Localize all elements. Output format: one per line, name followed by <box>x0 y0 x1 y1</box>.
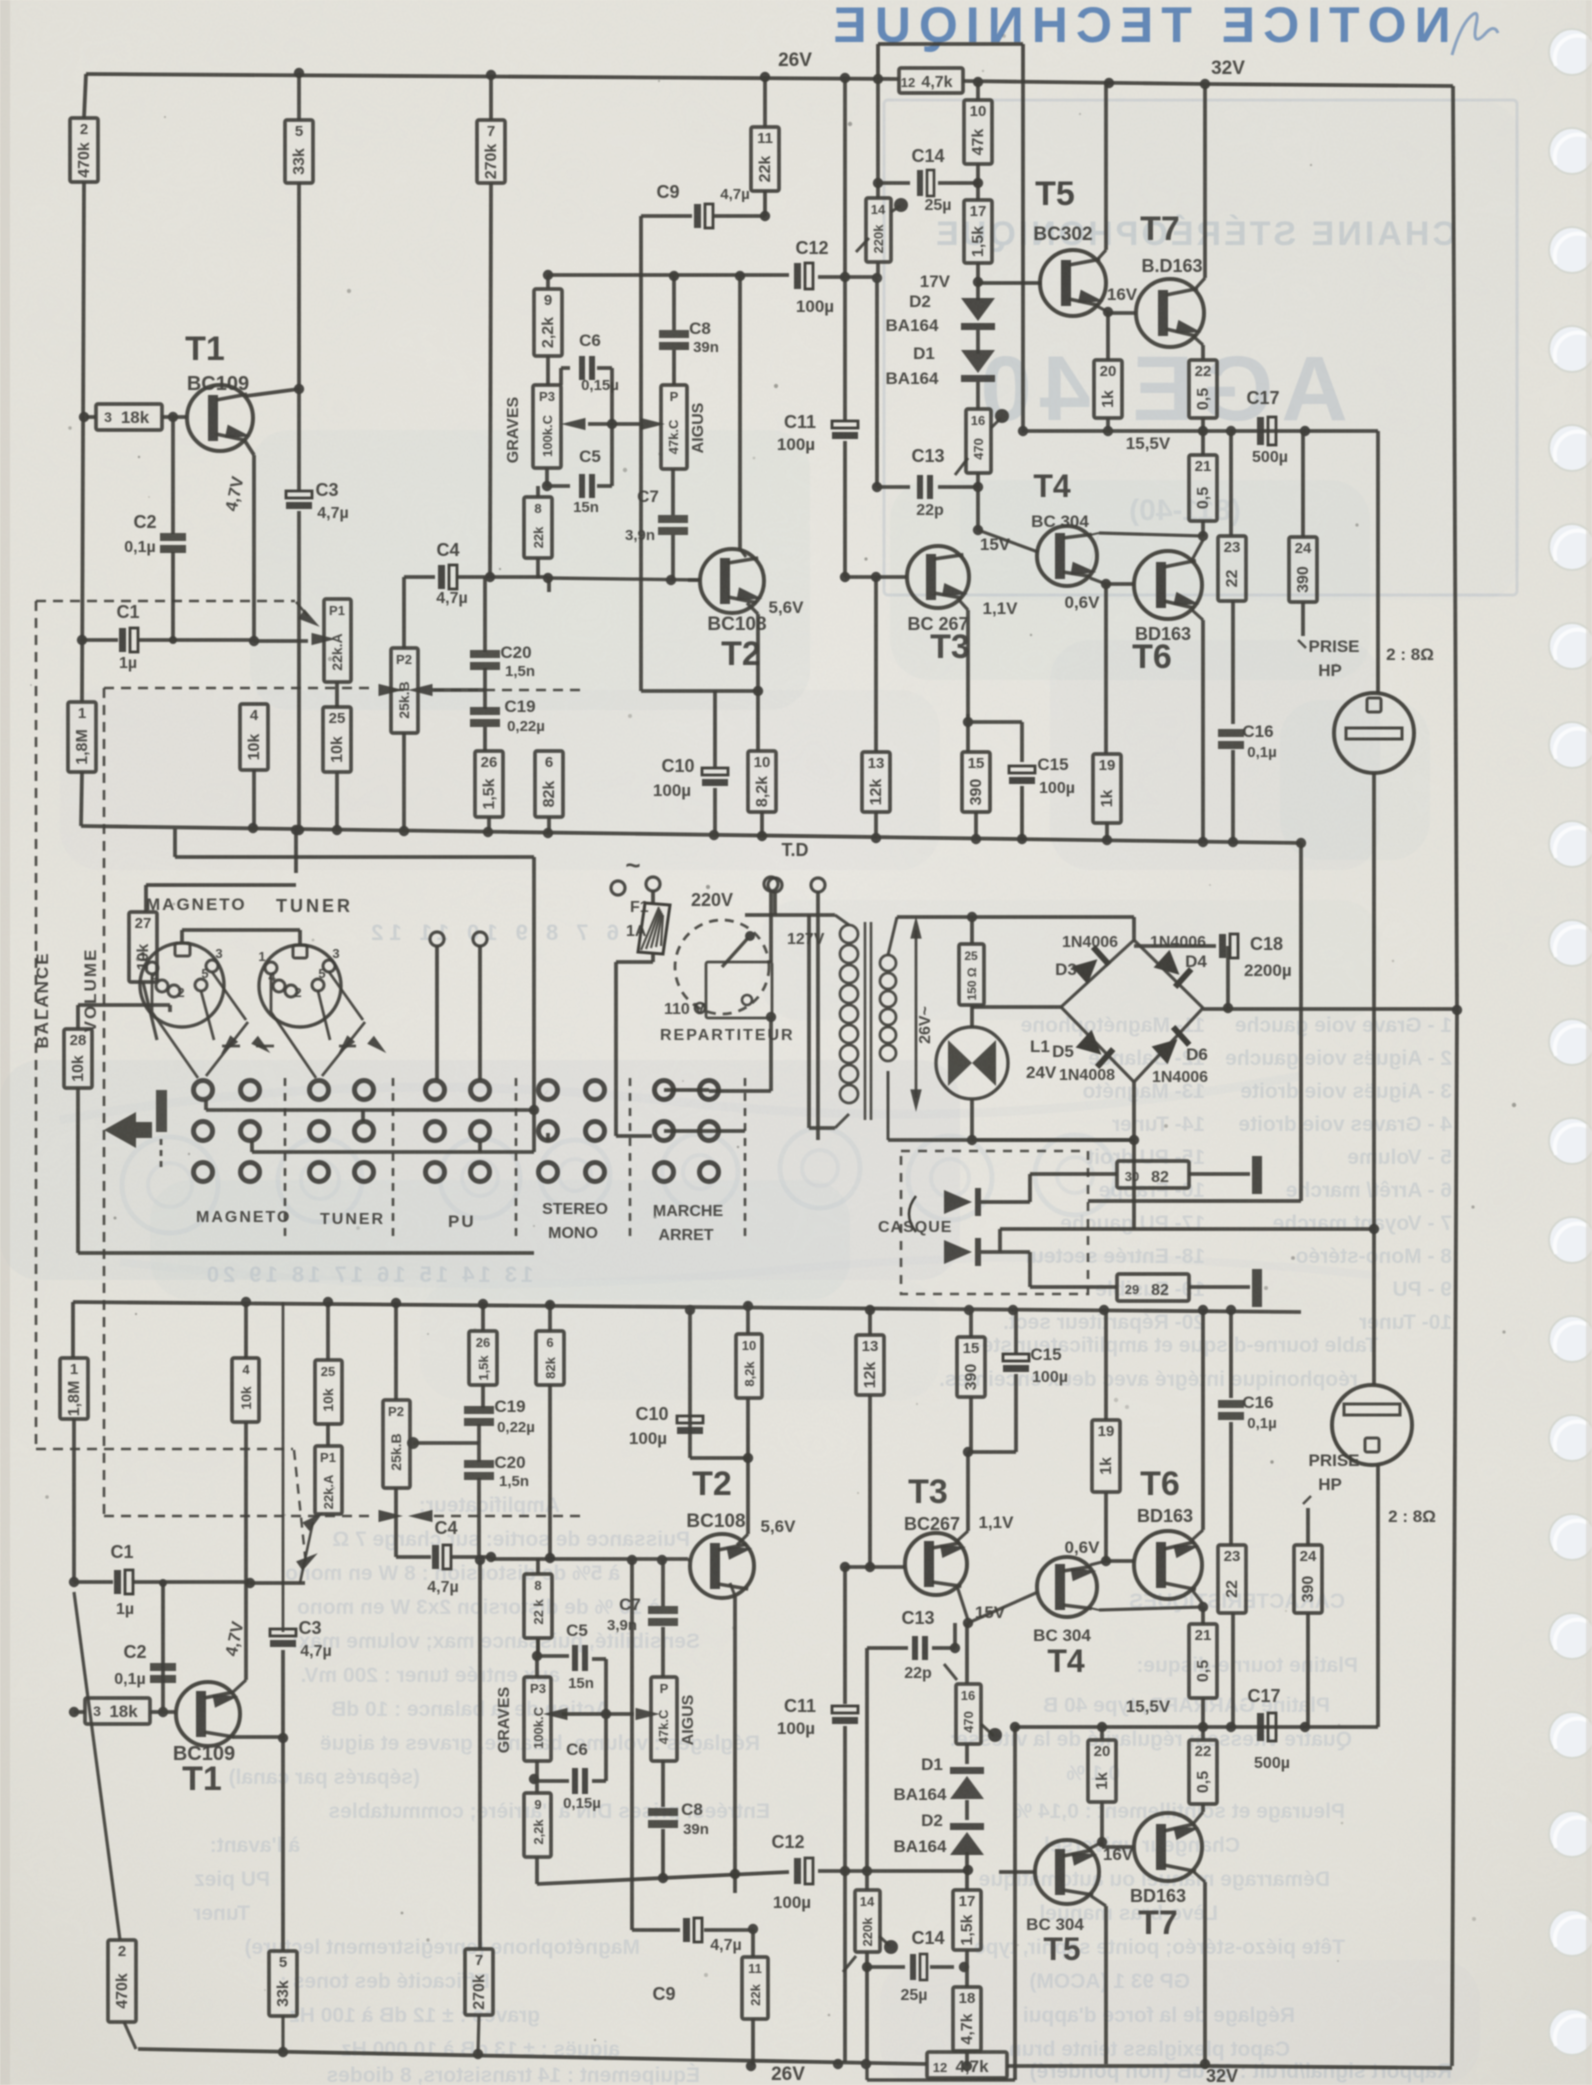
resistor R24 390 <box>1301 431 1305 537</box>
wire: T1 collector to R5 <box>246 389 299 396</box>
wire: T4b collector to T6b base node <box>1090 1561 1106 1565</box>
resistor R21b 0,5 <box>1201 1607 1205 1624</box>
wire: C13 node down to T3 collector/15V <box>976 487 980 530</box>
resistor R13b 12k <box>868 1310 872 1335</box>
wire: rail to C1b <box>72 1419 76 1582</box>
pot P3 100k.C GRAVES <box>533 385 561 468</box>
pot P2b 25k.B bottom <box>383 1400 410 1488</box>
transistor T1 BC109 <box>187 385 253 451</box>
wire: left rail down <box>84 74 86 118</box>
wire: P2b bottom to C4b <box>394 1488 398 1557</box>
wire: T7 emitter down to R22 <box>1193 336 1203 345</box>
wire: R29 to jack contact <box>1189 1285 1250 1289</box>
resistor R12 4.7k (series in rail) <box>899 68 963 93</box>
capacitor C8b 39n <box>661 1761 665 1807</box>
wire: secondary bottom line <box>888 1138 1134 1142</box>
wire: T2 emitter down <box>747 603 758 614</box>
casque dashed box <box>901 1151 1088 1294</box>
capacitor C6b 0,15u <box>535 1761 539 1779</box>
wire: D2b to 17V line <box>965 1852 969 1872</box>
wire: R11 down to C9 node <box>763 191 767 216</box>
wire: bottom C12 rail to 17V line <box>867 1869 968 1873</box>
wire: T6b base <box>1106 1559 1134 1563</box>
dashed volume line <box>104 687 374 690</box>
label 17V and node <box>976 263 980 282</box>
wire: bottom left rail <box>71 1302 75 1358</box>
lamp L1 24V <box>970 1005 974 1027</box>
resistor R7 270k <box>489 75 493 120</box>
wire: T3b base line <box>845 1565 905 1569</box>
pot R14 220k <box>876 183 880 198</box>
resistor R28 10k <box>64 1029 92 1088</box>
wire: T2b emitter up <box>737 1534 748 1545</box>
resistor R12b 4,7k (series bottom rail) <box>927 2052 1007 2078</box>
bleed: faint box CHAINE STEREOPHONIQUE AGE 40 <box>884 100 1517 595</box>
resistor R7b 270k <box>478 1560 482 1949</box>
diode D1 BA164 <box>976 330 980 354</box>
capacitor C10 100u <box>713 691 717 768</box>
capacitor C20b 1,5n chain <box>477 1478 481 1559</box>
wire: tone network top line <box>548 578 700 580</box>
resistor R5 33k <box>297 73 301 120</box>
wire: R24b top hook to HP <box>1306 1508 1310 1545</box>
wire: T7 collector up to rail <box>1196 278 1205 288</box>
wire: speaker bottom to 15,5V rail <box>1376 1465 1380 1727</box>
wire: C12 rail (26V decoupled) <box>548 273 789 277</box>
26V~ arrow <box>915 930 918 1098</box>
pot P3b GRAVES bottom <box>535 1656 539 1677</box>
transistor T2 BC108 <box>700 549 764 613</box>
pot AIGUS bottom <box>661 1627 665 1677</box>
bridge diode D4 1N4006 <box>1154 950 1194 989</box>
wire: R16 bottom to C13 node <box>976 473 980 487</box>
wire: T4 emitter <box>1087 533 1099 577</box>
resistor lamp series 150ohm <box>967 912 977 922</box>
wire: bottom channel ground bus <box>73 1302 1301 1312</box>
wire: 15,5V to speaker top <box>1376 431 1380 693</box>
wire: top ground rail <box>81 826 1301 843</box>
transistor T1b collector line <box>232 1735 283 1739</box>
wire: C5b/C6b right vertical <box>604 1659 608 1781</box>
resistor R23b 22 <box>1229 1310 1233 1398</box>
resistor R17 1,5k <box>976 183 980 200</box>
resistor R23 22 <box>1229 431 1233 536</box>
transistor T6 BD163 <box>1134 551 1202 619</box>
marche/arret wiring <box>664 1088 709 1092</box>
repartiteur <box>675 920 769 1014</box>
resistor R3b 18k <box>85 1698 150 1724</box>
capacitor C3 4,7u (T1 collector coupling) <box>297 389 301 490</box>
transformer primary coil <box>840 925 858 943</box>
wire: R7 down to C4 node <box>490 183 491 577</box>
wire: T5b base <box>999 1870 1035 1874</box>
wire: 17V to T5 base <box>978 281 1042 285</box>
DIN socket TUNER <box>259 945 341 1027</box>
transformer secondary coil <box>880 955 896 971</box>
resistor R1b 1,8M <box>60 1358 88 1419</box>
wire: bottom C12 rail <box>537 1872 789 1884</box>
wire: T7 base from 16V node <box>1108 311 1136 315</box>
wire: right border +32V down <box>1453 86 1457 1010</box>
diode D2 BA164 <box>976 282 980 300</box>
capacitor C8 39n <box>672 276 676 330</box>
wire: secondary top to bridge <box>1132 917 1136 940</box>
resistor R11 22k <box>763 77 767 127</box>
pot P2 25k.B (volume) <box>391 648 418 733</box>
wire: C19 bottom to R26 <box>483 727 487 751</box>
capacitor C19 0,22u <box>470 707 500 715</box>
wire: T6 collector to R21 node <box>1192 540 1203 560</box>
wire: T4b emitter line to R21b node <box>1099 1607 1203 1610</box>
wire: T7b base <box>1102 1845 1134 1849</box>
capacitor C13b 22p <box>865 1648 869 1872</box>
capacitor C12 100u <box>794 263 801 289</box>
speaker jack top <box>1334 693 1414 773</box>
wire: R5 down to T1 collector <box>297 183 301 389</box>
wires: tuner pins to contacts <box>329 972 363 1020</box>
wire: bootstrap loop over 4.7k <box>876 44 880 79</box>
transistor T4b BC304 <box>1037 1557 1097 1617</box>
wire: T1b emitter up <box>233 1680 246 1692</box>
DIN socket MAGNETO <box>140 943 224 1027</box>
transistor T5b BC304 <box>1035 1840 1099 1904</box>
bridge diode D3 1N4006 <box>1072 945 1112 984</box>
resistor R22b 0,5 <box>1189 1740 1217 1804</box>
resistor R9b 2,2k <box>535 1779 539 1793</box>
dashed volume line bottom <box>104 1515 374 1518</box>
capacitor C12b 100u <box>794 1858 801 1884</box>
capacitor C4 4,7u <box>404 575 435 579</box>
wire: R28 bottom to lower bus <box>76 1088 80 1253</box>
wire: right border down to bottom rail <box>1452 1010 1457 2066</box>
bridge diode D5 1N4008 <box>1076 1030 1116 1069</box>
resistor R25 10k <box>335 682 339 707</box>
wire: bottom channel collector drops R5b R7b <box>281 1738 285 1951</box>
pot R14b 220k <box>855 1890 880 1952</box>
hatched strip near volume arrow <box>156 1090 167 1132</box>
resistor R15b 390 <box>969 1310 973 1337</box>
wire: bus prolong to C9b column <box>631 1559 633 1561</box>
resistor R21 0,5 <box>1201 431 1205 455</box>
wire: T6 base <box>1106 582 1134 586</box>
node: rail junctions top <box>294 68 304 78</box>
wire: speaker column crossings <box>1133 1228 1135 1230</box>
capacitor C7b 3,9n <box>661 1560 665 1606</box>
resistor R24b 390 <box>1294 1545 1322 1613</box>
wire: T6 emitter down to ground <box>1192 610 1203 620</box>
dashed balance line <box>36 600 295 603</box>
resistor R1 1,8M <box>68 702 96 772</box>
wire: T3b emitter up to R15/C15 node <box>957 1531 968 1541</box>
pot R16b 470 <box>956 1684 981 1744</box>
input arrow <box>104 1112 152 1148</box>
wire: rail to C14 node <box>876 79 880 183</box>
resistor R20 1k <box>1106 312 1110 360</box>
capacitor C9b 4,7u <box>632 1928 680 1932</box>
resistor R2b 470k <box>74 1592 120 1940</box>
wire: socket top frames <box>180 930 184 943</box>
resistor R4b 10k <box>244 1302 248 1358</box>
wire: bridge bottom to casque area <box>1132 1082 1136 1140</box>
wire: bank to stereo contacts <box>534 1090 548 1110</box>
wire: R14b col down to bottom rail <box>865 1967 869 2062</box>
wire: C1 input line <box>77 635 87 645</box>
resistor R18b 4,7k <box>965 1967 969 1987</box>
capacitor C9 4,7u <box>641 214 692 218</box>
wire: T7b collector down to rail <box>1194 1872 1205 1882</box>
wire: speakers common line <box>1000 1227 1374 1231</box>
transistor T3b BC267 <box>905 1533 967 1595</box>
resistor R26b 1,5k <box>481 1385 485 1408</box>
wire: bridge plus output to border <box>1203 1007 1457 1011</box>
capacitor C5 15n <box>547 484 570 488</box>
wire: R30 to jack contact <box>1189 1172 1250 1176</box>
resistor R2 470k <box>70 118 98 182</box>
wire: T6b collector to R21b node <box>1192 1590 1203 1604</box>
capacitor C19b 0,22u <box>464 1406 494 1414</box>
wire: T5 emitter to 16V node <box>1095 305 1108 312</box>
resistor R8 22k <box>536 486 540 497</box>
transistor T3 BC267 <box>907 546 969 608</box>
capacitor C7 3,9n <box>671 469 675 515</box>
wire: P2b top to bus <box>394 1302 398 1400</box>
wire: T1 emitter down <box>245 441 254 455</box>
wire: T4 collector down to T6 base node <box>1090 578 1106 584</box>
resistor R19b 1k <box>1104 1492 1108 1561</box>
wires: magneto pins to contacts <box>212 972 246 1020</box>
casque diode pair upper <box>944 1190 972 1214</box>
wire: 0V line to right <box>1132 1140 1136 1229</box>
wire: R24 down to HP contact <box>1301 602 1305 636</box>
wire: T6b emitter up to bus <box>1192 1530 1203 1540</box>
wire: bootstrap loop bottom <box>1013 1727 1017 2080</box>
wire: +26V top rail <box>86 74 899 79</box>
diode D2b BA164 <box>965 1800 969 1820</box>
wire: C5/C6 right junction to wiper arrows <box>610 368 614 486</box>
resistor R15 390 <box>962 752 990 812</box>
resistor R10b 47k <box>976 82 980 100</box>
transistor T6b BD163 (bottom) <box>1134 1531 1202 1599</box>
bridge rectifier diamond <box>1061 940 1134 1007</box>
wire: T5 collector up to rail <box>1097 250 1106 260</box>
wire: T5b collector down to rail <box>1091 1896 1106 1906</box>
capacitor C1 1u <box>119 628 126 652</box>
wire: R28 top hook <box>76 1005 80 1029</box>
resistor R8b 22k <box>536 1559 540 1574</box>
resistor R27 10k <box>144 885 148 912</box>
wire: P2 top to C4 <box>402 577 406 648</box>
capacitor C11b 100u <box>843 1567 847 1704</box>
capacitor C15b 100u <box>1003 1354 1029 1361</box>
capacitor C2 0,1u <box>171 417 175 534</box>
capacitor C1b 1u <box>74 1580 113 1584</box>
speaker jack bottom <box>1332 1385 1412 1465</box>
transformer core <box>864 922 867 1120</box>
bleed: ghost socket circles from reverse page <box>122 1137 218 1233</box>
casque diode pair lower <box>944 1240 972 1264</box>
transistor T5 BC302 <box>1040 250 1106 316</box>
wire: bridge minus to lamp node <box>972 1005 1061 1009</box>
wire: stub rail to switch bank <box>173 829 177 857</box>
transistor T7 BD163 (top) <box>1136 279 1204 347</box>
resistor R20b 1k <box>1088 1740 1116 1802</box>
resistor R10 8,2k <box>748 751 776 812</box>
capacitor C15 100u <box>966 714 970 752</box>
capacitor C4b 4,7u <box>396 1555 431 1559</box>
transistor T4 BC304 <box>1037 526 1097 586</box>
resistor R6b 82k <box>536 1331 564 1385</box>
wire: bottom base line <box>491 1557 688 1561</box>
resistor R13 12k <box>874 577 878 752</box>
resistor R22 0,5 <box>1189 360 1217 418</box>
wire: speaker bottom down <box>1372 773 1376 1385</box>
wire: 15,5V rail <box>1023 429 1378 433</box>
resistor R4 10k <box>240 704 268 770</box>
PU input terminals <box>430 932 444 946</box>
diode D1b BA164 <box>965 1744 969 1764</box>
capacitor C18 2200u <box>1226 946 1230 1008</box>
wire: C9 left leg down to T2 emitter node <box>639 216 643 691</box>
resistor R3 18k <box>96 404 162 430</box>
switch contact grid <box>194 1081 213 1100</box>
wire: bottom 15,5V rail <box>1015 1725 1378 1729</box>
dashed balance line bottom <box>36 1448 293 1451</box>
wire: D chain node <box>965 1623 969 1684</box>
wire: T2b base <box>688 1558 690 1562</box>
wire: P3 bottom to C5/R8 node <box>545 468 549 486</box>
capacitor C16 0,1u <box>1231 601 1235 724</box>
wire: T3b collector to 15V node <box>957 1586 968 1620</box>
transistor T2b BC108 <box>690 1534 754 1598</box>
page edge shading <box>0 0 10 2085</box>
wire: C9b legs <box>630 1560 634 1930</box>
resistor R11b 22k <box>742 1957 768 2019</box>
capacitor C6 0,15u <box>561 366 570 370</box>
wire: T2 collector up to C12 rail <box>738 276 742 549</box>
wire: P2 wiper from volume dash <box>391 689 404 691</box>
resistor R6 82k <box>547 578 551 592</box>
photocopy speckles <box>982 70 984 72</box>
capacitor C11 100u <box>843 78 847 277</box>
transistor T1b BC109 <box>176 1682 240 1746</box>
blue pen scribble top right <box>1452 13 1498 55</box>
wire: ground drop to casque <box>1296 838 1306 848</box>
bus wire A in switch bank <box>206 1108 534 1112</box>
pot P1b 22k.A <box>315 1446 342 1514</box>
binding holes right edge <box>1549 29 1592 75</box>
capacitor C3b 4,7u <box>282 1302 285 1632</box>
dashed switch separators <box>284 1078 287 1240</box>
wire: stub rail to magneto socket <box>294 830 298 873</box>
wire: R14 bottom to C12 rail <box>876 262 880 277</box>
capacitor C10b 100u <box>690 1456 748 1460</box>
wire: T7b emitter up to R22b <box>1193 1812 1203 1824</box>
pot P1 22k.A (balance) <box>324 599 351 682</box>
resistor R9 2,2k <box>546 275 550 289</box>
capacitor C13 22p <box>875 278 879 487</box>
wire: bottom 26V rail <box>138 2049 927 2064</box>
wire: T3 emitter down <box>959 600 968 610</box>
photocopy grain overlay <box>0 0 1 1</box>
resistor R19 1k <box>1104 584 1108 754</box>
pot P2b 47k.C AIGUS <box>661 385 687 469</box>
wire: T2 base line <box>688 578 700 582</box>
capacitor C17b 500u <box>1257 1713 1264 1741</box>
resistor R8b bottom lead <box>536 1638 540 1656</box>
resistor R29 82 (casque) <box>1030 1285 1117 1289</box>
wire: T4 emitter line to R21 bottom <box>1099 533 1203 536</box>
bus wire B in switch bank <box>252 1150 534 1154</box>
bridge diode D6 1N4006 <box>1152 1025 1192 1064</box>
wire: emitter node to R10 <box>756 691 760 751</box>
resistor R26 1,5k <box>475 751 503 817</box>
capacitor C14b 25u <box>862 1962 872 1972</box>
wire: C12b rail column to bottom rail <box>843 1871 847 2062</box>
wire: T3 base from C11 <box>845 575 907 579</box>
wire: P2 bottom to ground <box>402 733 406 831</box>
resistor R10b 8,2k <box>746 1398 750 1458</box>
capacitor C17 500u <box>1257 417 1264 445</box>
pot R16 470 (bias) <box>976 382 980 409</box>
resistor R17b 1,5k <box>965 1870 969 1890</box>
capacitor C14 25u <box>878 181 910 185</box>
wire: P3b wiper arrows <box>543 1708 568 1720</box>
resistor R25b 10k <box>315 1360 342 1424</box>
wire: T2b collector down to C12 rail <box>730 1583 735 1596</box>
resistor R30 82 (casque) <box>1030 1172 1117 1176</box>
transistor T7b BD163 (bottom) <box>1134 1813 1202 1881</box>
capacitor C2b 0,1u <box>161 1583 165 1712</box>
wire: T5b emitter to 16V node <box>1089 1842 1102 1849</box>
capacitor C20 1,5n <box>483 577 487 652</box>
capacitor C5b 15n <box>537 1654 569 1658</box>
